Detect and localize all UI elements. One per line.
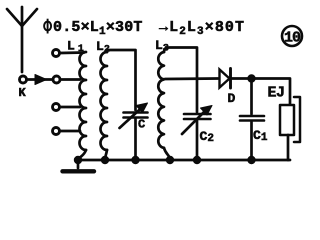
wire diode to node: [231, 77, 251, 80]
variable capacitor C2 arrow: [182, 109, 207, 134]
wire node to EJ corner: [252, 79, 291, 106]
svg-text:C: C: [138, 118, 145, 132]
node at diode output: [248, 75, 255, 82]
junction C bottom: [132, 156, 139, 163]
junction L1/ground: [74, 156, 81, 163]
junction L2 bottom: [101, 156, 108, 163]
wire L2 bottom to rail: [105, 150, 107, 160]
wire L1 bottom to ground node: [78, 150, 86, 160]
capacitor C1 plates: [240, 116, 264, 121]
switch K terminal: [20, 76, 27, 83]
wire C bottom to rail: [134, 119, 137, 160]
junction C1 bottom: [248, 156, 255, 163]
variable capacitor C plates: [124, 113, 148, 118]
diode D: [220, 69, 231, 89]
wire tap3 to coil: [61, 106, 81, 109]
tap terminal 1: [53, 50, 60, 57]
tap terminal 4: [53, 128, 60, 135]
figure number circle 10: [282, 26, 302, 46]
junction L3 bottom: [166, 156, 173, 163]
wire tap1 to coil: [61, 51, 85, 54]
wire node down to C1: [250, 79, 253, 115]
variable capacitor C arrow: [120, 106, 144, 128]
tap terminal 3: [53, 104, 60, 111]
switch arm wire: [28, 78, 53, 81]
svg-text:10: 10: [284, 30, 301, 47]
wire tap4 to coil: [61, 130, 81, 133]
wire C1 to rail: [250, 122, 253, 160]
antenna: [7, 7, 37, 72]
inductor L3: [158, 52, 164, 148]
svg-text:D: D: [228, 91, 236, 106]
earphone EJ: [280, 97, 300, 160]
tap terminal 2 (selected): [53, 76, 60, 83]
switch arrow head: [35, 75, 47, 85]
variable capacitor C2 plates: [184, 114, 211, 119]
svg-text:0.5×L1×30T: 0.5×L1×30T: [53, 19, 143, 38]
wire L3 top to C2 branch: [164, 48, 197, 113]
svg-text:EJ: EJ: [268, 85, 285, 102]
winding annotation diameter symbol: [44, 19, 51, 34]
bottom rail wire: [78, 159, 290, 162]
ground: [63, 160, 95, 171]
wire L2 top to C branch: [107, 50, 136, 110]
inductor L2: [101, 52, 108, 150]
wire L3 tap to diode: [165, 77, 218, 80]
junction C2 bottom: [193, 156, 200, 163]
wire C2 bottom to rail: [196, 121, 199, 161]
wire L3 bottom to rail: [164, 148, 170, 160]
inductor L1: [80, 52, 86, 150]
svg-text:K: K: [19, 86, 27, 100]
wire tap2 to coil: [61, 78, 80, 81]
